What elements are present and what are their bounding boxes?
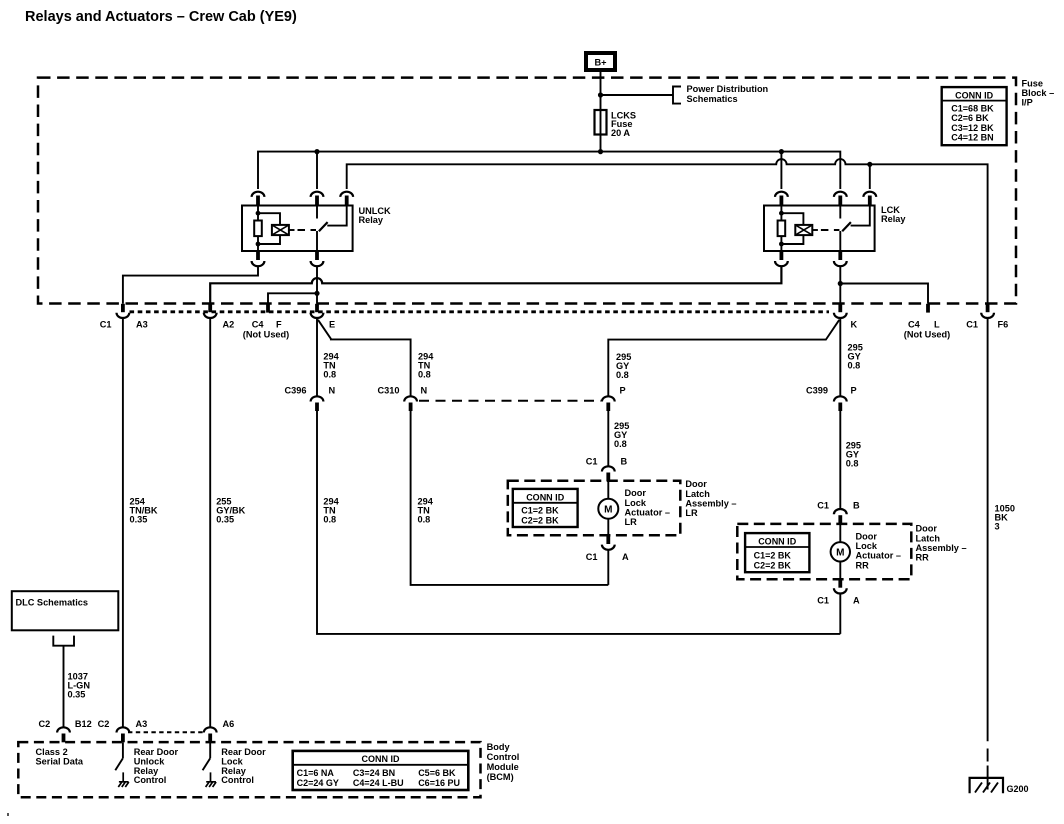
- connector L not used: [926, 304, 930, 313]
- svg-text:A2: A2: [223, 320, 235, 330]
- svg-text:C4: C4: [252, 320, 265, 330]
- svg-text:(Not Used): (Not Used): [904, 330, 950, 340]
- wire LR A down: [607, 550, 609, 585]
- svg-text:C2: C2: [39, 719, 51, 729]
- svg-text:0.8: 0.8: [323, 370, 336, 380]
- svg-text:Power Distribution: Power Distribution: [687, 84, 769, 94]
- svg-text:Door: Door: [625, 488, 647, 498]
- connector C2 A3 BCM: [116, 727, 129, 732]
- node bus1 unlck pin2: [314, 149, 319, 154]
- svg-text:C5=6 BK: C5=6 BK: [418, 768, 456, 778]
- svg-text:E: E: [329, 320, 335, 330]
- svg-text:C6=16 PU: C6=16 PU: [418, 778, 460, 788]
- dashed link C310 to P: [419, 400, 601, 402]
- svg-text:Assembly –: Assembly –: [685, 498, 736, 508]
- fuse LCKS 20 A: [595, 110, 607, 135]
- connector C396 N: [311, 396, 324, 401]
- svg-text:C3=24 BN: C3=24 BN: [353, 768, 395, 778]
- wire E diagonal to C310: [318, 320, 608, 585]
- coil symbol lck: [781, 213, 803, 244]
- wire bus2 with hops: [347, 159, 988, 304]
- wire lck switch to K: [839, 267, 841, 304]
- node bus2 lck pin3: [867, 162, 872, 167]
- connector unlck pin1 bottom: [256, 251, 260, 260]
- svg-text:0.35: 0.35: [130, 515, 148, 525]
- battery feed B+: [586, 53, 615, 70]
- svg-text:B: B: [621, 457, 628, 467]
- svg-text:Door: Door: [916, 524, 938, 534]
- wire unlck pin2 riser: [316, 152, 318, 189]
- switch unlck: [316, 206, 318, 219]
- wire F6 to G200: [987, 319, 989, 742]
- contact lck pin3: [851, 206, 870, 226]
- svg-text:N: N: [329, 386, 336, 396]
- svg-text:C4: C4: [908, 320, 921, 330]
- conn id table fuse block: [942, 87, 1007, 145]
- svg-text:(Not Used): (Not Used): [243, 330, 289, 340]
- connector unlck pin2 top: [311, 192, 324, 197]
- svg-text:0.8: 0.8: [616, 370, 629, 380]
- connector RR A: [838, 579, 842, 587]
- svg-text:A: A: [622, 552, 629, 562]
- relay UNLCK box: [242, 206, 353, 252]
- connector C1 F6 at fuse block: [986, 304, 990, 312]
- svg-text:RR: RR: [916, 553, 930, 563]
- bracket power distribution: [673, 87, 681, 104]
- svg-text:C2=24 GY: C2=24 GY: [297, 778, 339, 788]
- wire F branch: [268, 293, 317, 303]
- wire K to C399 down: [839, 319, 841, 509]
- ground G200: [970, 778, 1003, 793]
- svg-text:C1=2 BK: C1=2 BK: [521, 505, 559, 515]
- connector unlck pin2 bottom: [315, 251, 319, 260]
- svg-text:Module: Module: [487, 762, 519, 772]
- connector lck pin1 bottom: [780, 251, 784, 260]
- svg-text:Lock: Lock: [856, 541, 878, 551]
- svg-text:Body: Body: [487, 742, 511, 752]
- svg-text:Control: Control: [487, 752, 520, 762]
- connector C310 N: [404, 396, 417, 401]
- wire A3 to BCM: [122, 319, 124, 727]
- coil symbol unlck: [258, 213, 280, 244]
- ground unlock switch: [118, 772, 129, 787]
- svg-text:Door: Door: [856, 532, 878, 542]
- wire lck pin1 riser: [780, 152, 782, 189]
- switch lck: [839, 206, 841, 219]
- svg-text:20 A: 20 A: [611, 128, 630, 138]
- wire RR A down: [839, 594, 841, 634]
- dotted connector row line: [130, 310, 830, 313]
- svg-text:(BCM): (BCM): [487, 772, 514, 782]
- wire coil to switch dash link: [289, 229, 295, 231]
- relay UNLCK coil branch: [257, 206, 259, 222]
- svg-text:0.8: 0.8: [848, 361, 861, 371]
- svg-text:Control: Control: [134, 775, 167, 785]
- svg-text:B: B: [853, 501, 860, 511]
- svg-text:I/P: I/P: [1022, 98, 1033, 108]
- connector lck pin3 top: [863, 192, 876, 197]
- svg-text:G200: G200: [1007, 784, 1029, 794]
- svg-text:C396: C396: [285, 386, 307, 396]
- svg-text:Relay: Relay: [881, 214, 906, 224]
- motor LR: [607, 481, 609, 499]
- svg-text:0.8: 0.8: [418, 515, 431, 525]
- svg-text:0.35: 0.35: [68, 690, 86, 700]
- svg-text:C4=12 BN: C4=12 BN: [951, 133, 993, 143]
- svg-text:LR: LR: [625, 517, 638, 527]
- BCM dashed box: [18, 742, 480, 797]
- svg-text:C2=2 BK: C2=2 BK: [754, 560, 792, 570]
- svg-text:C1: C1: [100, 320, 112, 330]
- wire coil to switch dash link lck: [812, 229, 818, 231]
- svg-text:A: A: [853, 596, 860, 606]
- svg-text:C2: C2: [98, 719, 110, 729]
- svg-text:C1: C1: [817, 501, 829, 511]
- node bus1 fuse: [598, 149, 603, 154]
- svg-text:Assembly –: Assembly –: [916, 543, 967, 553]
- wire K diagonal to P: [608, 320, 839, 467]
- connector lck pin2 bottom: [838, 251, 842, 260]
- svg-text:C1: C1: [966, 320, 978, 330]
- wire B+ to bus1: [600, 72, 602, 152]
- wire E down to RR return: [317, 319, 840, 634]
- svg-text:CONN ID: CONN ID: [955, 90, 994, 100]
- relay LCK coil branch: [780, 206, 782, 222]
- svg-text:N: N: [421, 386, 428, 396]
- wire unlck switch to E: [316, 267, 318, 304]
- connector A2 at fuse block: [208, 304, 212, 312]
- svg-text:0.35: 0.35: [216, 515, 234, 525]
- svg-text:LR: LR: [685, 508, 698, 518]
- svg-text:M: M: [836, 548, 844, 559]
- svg-text:0.8: 0.8: [323, 515, 336, 525]
- connector F not used: [266, 304, 270, 313]
- switch rear door unlock: [122, 742, 124, 758]
- svg-text:RR: RR: [856, 560, 870, 570]
- svg-text:C1: C1: [586, 552, 598, 562]
- wire bus1: [258, 152, 840, 189]
- ground lock switch: [206, 772, 217, 787]
- wire lck coil return to A2 with hop: [210, 267, 781, 304]
- connector E at fuse block: [315, 304, 319, 312]
- connector A6 BCM: [204, 727, 217, 732]
- svg-text:A3: A3: [136, 719, 148, 729]
- svg-text:Schematics: Schematics: [687, 94, 738, 104]
- svg-text:A3: A3: [136, 320, 148, 330]
- svg-text:0.8: 0.8: [418, 370, 431, 380]
- svg-text:CONN ID: CONN ID: [526, 492, 565, 502]
- DLC schematics box: [12, 591, 119, 630]
- svg-text:0.8: 0.8: [846, 459, 859, 469]
- svg-text:CONN ID: CONN ID: [362, 754, 401, 764]
- svg-text:Block –: Block –: [1022, 88, 1055, 98]
- dashed link A3 A6: [128, 731, 205, 733]
- svg-text:C2=2 BK: C2=2 BK: [521, 515, 559, 525]
- svg-text:B+: B+: [594, 58, 606, 68]
- svg-text:Door: Door: [685, 479, 707, 489]
- conn id box LR: [513, 489, 578, 527]
- connector RR B: [834, 509, 847, 514]
- connector C399 P: [834, 396, 847, 401]
- bracket DLC output: [53, 636, 74, 646]
- svg-text:Actuator –: Actuator –: [625, 507, 670, 517]
- wire lck pin3 riser: [869, 164, 871, 189]
- svg-text:L: L: [934, 320, 940, 330]
- wire unlck coil return to A3: [123, 267, 258, 304]
- motor RR: [839, 524, 841, 542]
- contact unlck pin3: [327, 206, 346, 226]
- svg-text:C4=24 L-BU: C4=24 L-BU: [353, 778, 404, 788]
- svg-text:M: M: [604, 505, 612, 516]
- svg-text:C3=12 BK: C3=12 BK: [951, 123, 994, 133]
- fuse block I/P dashed box: [38, 78, 1016, 304]
- connector C2 B12: [57, 727, 70, 732]
- svg-text:F6: F6: [998, 320, 1009, 330]
- svg-text:C1=6 NA: C1=6 NA: [297, 768, 335, 778]
- wire DLC to C2: [63, 646, 65, 727]
- svg-text:Latch: Latch: [685, 489, 710, 499]
- svg-text:B12: B12: [75, 719, 92, 729]
- connector lck pin1 top: [775, 192, 788, 197]
- svg-text:P: P: [851, 386, 857, 396]
- node power distribution tap: [598, 92, 603, 97]
- door latch assembly RR dashed box: [737, 524, 911, 579]
- connector C1 A3 at fuse block: [121, 304, 125, 312]
- connector K at fuse block: [838, 304, 842, 312]
- svg-text:C310: C310: [378, 386, 400, 396]
- switch rear door lock: [209, 742, 211, 758]
- svg-text:P: P: [620, 386, 626, 396]
- svg-text:C2=6 BK: C2=6 BK: [951, 113, 989, 123]
- connector unlck pin1 top: [252, 192, 265, 197]
- node bus1 lck pin1: [779, 149, 784, 154]
- svg-text:DLC Schematics: DLC Schematics: [16, 598, 89, 608]
- svg-text:C1: C1: [817, 596, 829, 606]
- svg-text:C1: C1: [586, 457, 598, 467]
- connector lck pin2 top: [834, 192, 847, 197]
- svg-text:3: 3: [995, 522, 1000, 532]
- conn id box RR: [745, 533, 809, 572]
- svg-text:C399: C399: [806, 386, 828, 396]
- wire A2 to BCM: [209, 319, 211, 727]
- connector LR B: [602, 466, 615, 471]
- svg-text:Control: Control: [221, 775, 254, 785]
- connector P left: [602, 396, 615, 401]
- wire power distribution tap: [601, 94, 674, 96]
- conn id table BCM: [293, 751, 469, 790]
- svg-text:A6: A6: [223, 719, 235, 729]
- svg-text:C1=68 BK: C1=68 BK: [951, 104, 994, 114]
- relay LCK box: [764, 206, 875, 252]
- svg-text:F: F: [276, 320, 282, 330]
- svg-text:Relay: Relay: [359, 215, 384, 225]
- svg-text:Latch: Latch: [916, 533, 941, 543]
- wire L branch: [840, 284, 928, 304]
- svg-text:C1=2 BK: C1=2 BK: [754, 550, 792, 560]
- stray mark bottom left: [7, 813, 9, 816]
- svg-text:CONN ID: CONN ID: [758, 537, 797, 547]
- node F tap: [314, 291, 319, 296]
- door latch assembly LR dashed box: [508, 481, 681, 536]
- svg-text:0.8: 0.8: [614, 439, 627, 449]
- node K L tap: [838, 281, 843, 286]
- svg-text:Serial Data: Serial Data: [36, 756, 84, 766]
- wire lck pin2 riser: [839, 158, 841, 189]
- resistor unlck coil: [254, 221, 262, 237]
- svg-text:Fuse: Fuse: [1022, 78, 1043, 88]
- connector LR A: [606, 536, 610, 545]
- svg-text:Relays and Actuators – Crew Ca: Relays and Actuators – Crew Cab (YE9): [25, 9, 297, 25]
- svg-text:K: K: [851, 320, 858, 330]
- resistor lck coil: [778, 221, 786, 237]
- svg-text:Lock: Lock: [625, 498, 647, 508]
- connector unlck pin3 top: [340, 192, 353, 197]
- svg-text:Actuator –: Actuator –: [856, 551, 901, 561]
